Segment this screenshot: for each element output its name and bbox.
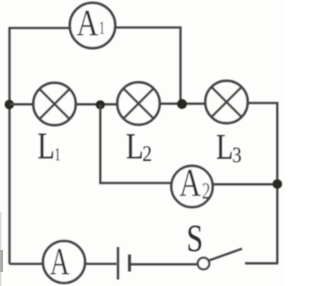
label L2 [127,134,151,161]
node junction lamp row / A2 branch [96,100,105,109]
wire bottom right [245,262,278,264]
wire [213,183,278,185]
wire [8,27,69,29]
wire bottom left [10,263,44,265]
wire [131,263,198,265]
battery cell: short plate [128,255,131,272]
lamp L3 [205,81,247,123]
label L3 [217,135,241,162]
wire [10,103,34,105]
switch S blade [209,249,242,261]
battery cell: long plate [117,247,119,280]
wire [116,28,181,101]
ammeter A1 [70,3,115,48]
wire [248,103,277,263]
ammeter A2 [171,166,212,207]
wire [86,263,117,265]
node junction left bus / lamp row [5,100,14,109]
node junction lamp row / A1 return [177,99,187,109]
ammeter A [43,241,85,283]
node junction right bus / A2 return [273,179,283,189]
label S [188,225,201,251]
wire A2 branch [100,105,171,183]
wire [8,28,10,264]
wire [76,103,117,105]
lamp L2 [117,82,159,124]
label L1 [38,134,59,161]
wire [160,103,205,105]
switch S pivot [198,258,210,270]
lamp L1 [33,83,75,125]
